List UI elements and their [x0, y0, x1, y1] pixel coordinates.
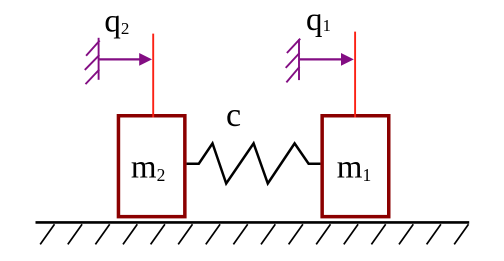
svg-text:c: c	[226, 97, 241, 134]
svg-text:q1: q1	[306, 2, 331, 38]
svg-text:q2: q2	[104, 4, 129, 40]
